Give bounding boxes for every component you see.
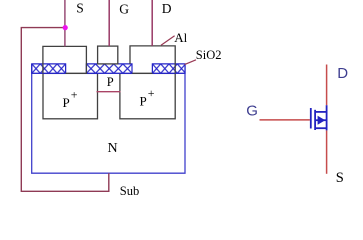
svg-text:D: D (337, 65, 348, 82)
P+ drain region (120, 73, 175, 118)
wire S lead (64, 0, 66, 46)
svg-text:+: + (71, 88, 78, 102)
MOSFET symbol Q1 source stub (315, 127, 328, 129)
SiO2 segment right (152, 64, 185, 73)
MOSFET symbol Q1 body stub with arrow (315, 119, 327, 121)
svg-text:S: S (336, 170, 344, 186)
MOSFET symbol Q1 gate bar (310, 108, 312, 129)
SiO2 segment middle (gate oxide) (86, 64, 132, 73)
svg-text:G: G (246, 102, 258, 119)
svg-text:G: G (119, 1, 129, 16)
wire source lead (326, 130, 328, 173)
SiO2 segment left (32, 64, 66, 73)
MOSFET symbol Q1 body arrow (P-channel) (318, 116, 326, 125)
Al contact G (gate metal) (98, 46, 118, 64)
junction dot S-substrate (63, 25, 68, 30)
induced P channel line (97, 91, 121, 93)
wire substrate to source (21, 28, 109, 192)
pointer line Al (161, 36, 175, 46)
wire gate lead (260, 119, 310, 121)
wire drain lead (326, 65, 328, 106)
svg-text:P: P (63, 95, 70, 110)
Al contact D (metal) (130, 46, 175, 74)
MOSFET symbol Q1 right vertical connector (326, 105, 328, 130)
pointer line SiO2 (185, 60, 197, 65)
wire D lead (151, 0, 153, 46)
svg-text:+: + (148, 86, 155, 100)
svg-text:N: N (108, 141, 118, 156)
N substrate region box (32, 64, 185, 173)
MOSFET symbol Q1 channel bar (314, 110, 316, 130)
svg-text:S: S (76, 1, 84, 16)
wire G lead (108, 0, 110, 46)
P+ source region (43, 73, 98, 118)
svg-text:SiO2: SiO2 (196, 48, 222, 62)
svg-text:Al: Al (174, 30, 187, 45)
svg-text:D: D (162, 1, 172, 16)
svg-text:P: P (107, 75, 114, 89)
svg-text:Sub: Sub (120, 184, 139, 198)
Al contact S (metal) (43, 46, 87, 73)
MOSFET symbol Q1 drain stub (315, 111, 328, 113)
svg-text:P: P (140, 93, 147, 108)
